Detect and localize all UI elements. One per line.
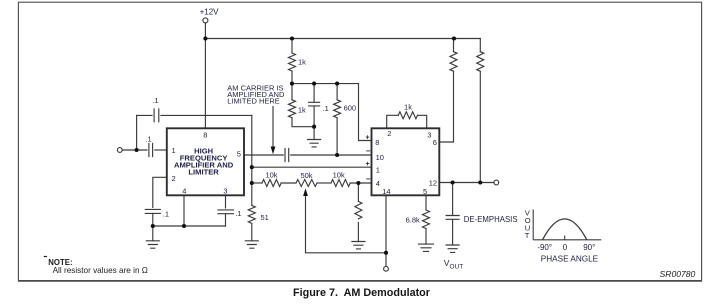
resistor R 1k (IC2 top) — [398, 112, 417, 119]
svg-text:10: 10 — [376, 153, 384, 162]
svg-text:.1: .1 — [145, 134, 151, 143]
svg-text:2: 2 — [172, 174, 176, 183]
wire feedback top — [137, 114, 152, 116]
svg-text:1k: 1k — [298, 105, 306, 114]
resistor (pull-up left) — [450, 52, 457, 72]
node dot rail/+12V — [203, 36, 207, 40]
resistor R 10k (left) — [262, 180, 281, 187]
svg-text:6: 6 — [433, 138, 437, 147]
graph axis label VOUT stacked — [525, 209, 531, 241]
ground (6.8k) — [419, 244, 434, 251]
svg-text:All resistor values are in Ω: All resistor values are in Ω — [53, 266, 148, 275]
svg-text:.1: .1 — [235, 209, 241, 218]
IC1 function text — [174, 146, 234, 176]
op-amp U2 demodulator box — [372, 128, 440, 195]
wire IC2 pin3 loop — [418, 115, 427, 128]
graph x-axis — [533, 239, 601, 241]
node dot cap/1k bottom — [312, 125, 316, 129]
wire IC1 pin 3 drop — [225, 195, 227, 208]
capacitor .1 (input) — [149, 144, 153, 157]
svg-text:2: 2 — [387, 129, 391, 138]
svg-text:1k: 1k — [404, 102, 412, 111]
graph x labels — [537, 243, 598, 263]
node dot rail/pullup — [452, 36, 456, 40]
ground (51) — [245, 241, 258, 248]
wire IC1 pin 4 drop — [183, 195, 185, 226]
capacitor .1 (pin 2 bypass) — [145, 209, 160, 213]
node dot left gnd junction — [151, 224, 155, 228]
svg-text:90°: 90° — [583, 243, 595, 252]
svg-text:LIMITER: LIMITER — [188, 167, 219, 176]
node dot 600/pin10 — [335, 153, 339, 157]
node dot pin1 row — [250, 165, 254, 169]
resistor R 10k (right) — [331, 180, 350, 187]
wire +12V stem — [204, 23, 206, 39]
svg-text:4: 4 — [376, 179, 380, 188]
node dot bottom wire — [384, 251, 388, 255]
svg-text:SR00780: SR00780 — [660, 269, 696, 279]
svg-text:10k: 10k — [265, 170, 277, 179]
svg-text:51: 51 — [261, 213, 269, 222]
resistor chain wire pin 4 row — [252, 182, 262, 184]
wire input — [122, 149, 147, 151]
note dagger dash — [44, 256, 47, 258]
graph tick — [564, 236, 566, 240]
svg-text:PHASE ANGLE: PHASE ANGLE — [541, 254, 599, 263]
node dot N1 600 — [335, 82, 339, 86]
svg-text:.1: .1 — [152, 96, 158, 105]
wire feedback left drop — [136, 115, 138, 150]
node dot pin12/de-emphasis — [451, 180, 455, 184]
svg-text:+: + — [366, 161, 370, 168]
graph y-axis — [532, 210, 534, 240]
resistor R 51 — [251, 183, 253, 205]
wire bottom junction IC1 — [153, 225, 226, 227]
op-amp U1 high frequency amplifier box — [167, 128, 244, 195]
resistor R 600 — [336, 84, 338, 100]
phase angle graph — [533, 210, 601, 240]
wire IC2 pin2 loop — [387, 115, 399, 128]
potentiometer wiper wire — [306, 195, 387, 253]
wire IC2 pin 5 — [425, 195, 427, 210]
resistor R 6.8k — [423, 210, 430, 229]
node dot pin4 junction — [182, 224, 186, 228]
graph bell curve — [543, 219, 587, 240]
capacitor .1 (node N1) — [313, 84, 315, 102]
svg-text:VOUT: VOUT — [444, 258, 463, 271]
bottom terminal — [384, 266, 389, 271]
wire IC2 pin 6 — [439, 72, 453, 142]
arrowhead wiper — [303, 188, 308, 196]
+12V supply terminal — [203, 18, 208, 23]
svg-text:6.8k: 6.8k — [406, 215, 420, 224]
svg-text:14: 14 — [382, 187, 390, 196]
svg-text:5: 5 — [237, 149, 241, 158]
capacitor .1 (pin 3) — [218, 210, 234, 214]
svg-text:+: + — [366, 134, 370, 141]
resistor (unlabeled, pin4 node) — [357, 183, 359, 201]
svg-text:600: 600 — [344, 104, 357, 113]
ground (de-emphasis) — [446, 245, 459, 252]
wire rail to IC1 pin 8 — [204, 39, 206, 129]
wire input cap to IC1 pin 1 — [155, 149, 167, 151]
svg-text:+12V: +12V — [200, 7, 220, 16]
arrowhead annotation — [271, 147, 276, 155]
note block — [44, 257, 148, 276]
svg-text:-90°: -90° — [537, 243, 552, 252]
resistor R 1k (upper) — [291, 39, 293, 54]
wire pin 14 drop — [385, 195, 387, 253]
svg-text:.1: .1 — [323, 104, 329, 113]
capacitor DE-EMPHASIS — [452, 183, 454, 215]
svg-text:8: 8 — [203, 131, 207, 140]
svg-text:0: 0 — [563, 243, 568, 252]
svg-text:3: 3 — [427, 130, 431, 139]
svg-text:−: − — [366, 147, 371, 156]
svg-text:Figure 7. AM Demodulator: Figure 7. AM Demodulator — [293, 287, 431, 299]
svg-text:.1: .1 — [163, 209, 169, 218]
svg-text:8: 8 — [375, 138, 379, 147]
node dot rail/1k — [290, 36, 294, 40]
svg-text:1k: 1k — [298, 58, 306, 67]
wire vertical feedback to pin1 row — [251, 115, 253, 183]
capacitor .1 (feedback) — [154, 109, 159, 122]
potentiometer R 50k — [296, 180, 317, 187]
wire node N1 horizontal — [292, 83, 359, 85]
svg-text:12: 12 — [429, 178, 437, 187]
ground (node cap) — [308, 140, 321, 147]
node dot N1 1k — [290, 82, 294, 86]
ground (unlabeled resistor) — [352, 242, 365, 249]
resistor R 1k (lower) — [291, 84, 293, 100]
wire IC1 pin 5 output — [244, 154, 283, 156]
resistor (pull-up right) — [479, 39, 481, 52]
border bottom edge — [18, 280, 702, 282]
svg-text:−: − — [366, 174, 371, 183]
output terminal — [494, 180, 499, 185]
svg-text:T: T — [525, 231, 530, 240]
node dot chain right — [356, 181, 360, 185]
ground (left) — [146, 241, 159, 248]
wire IC2 pin 1 row — [252, 166, 372, 168]
annotation arrow stem — [272, 107, 274, 148]
svg-text:5: 5 — [423, 187, 427, 196]
svg-text:DE-EMPHASIS: DE-EMPHASIS — [464, 215, 518, 224]
wire IC2 pin 12 row — [439, 182, 494, 184]
wire top supply rail — [205, 38, 480, 40]
node dot pin12/pullup — [478, 180, 482, 184]
svg-text:1: 1 — [376, 165, 380, 174]
node dot input — [135, 148, 139, 152]
node dot chain left — [250, 181, 254, 185]
svg-text:3: 3 — [223, 187, 227, 196]
wire node N1 to IC2 pin 8 — [359, 84, 372, 141]
svg-text:50k: 50k — [300, 171, 312, 180]
wire to bottom terminal — [385, 253, 387, 266]
svg-text:10k: 10k — [333, 170, 345, 179]
wire IC1 pin 2 — [153, 177, 167, 207]
input terminal — [117, 148, 122, 153]
svg-text:1: 1 — [172, 146, 176, 155]
svg-text:LIMITED HERE: LIMITED HERE — [227, 97, 280, 106]
capacitor coupling (pin5 to pin10) — [285, 149, 289, 162]
node dot N1 cap — [312, 82, 316, 86]
svg-text:4: 4 — [182, 186, 186, 195]
